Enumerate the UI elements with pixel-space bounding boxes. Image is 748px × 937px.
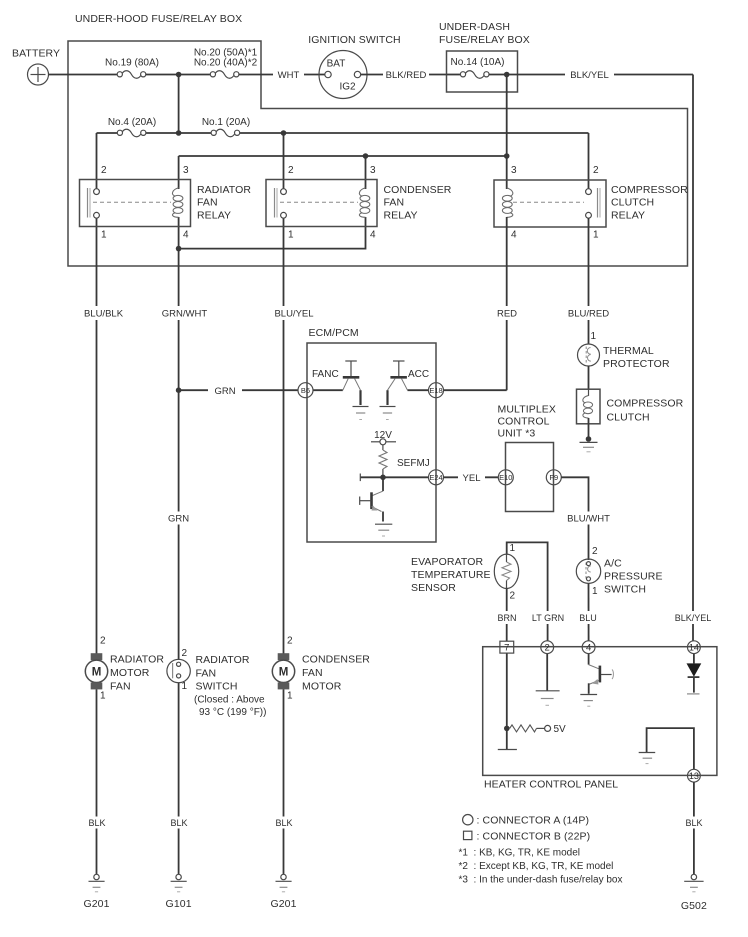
connector pin 13 bbox=[688, 769, 701, 782]
svg-text:F9: F9 bbox=[549, 473, 558, 482]
ignition switch bbox=[308, 34, 401, 99]
svg-text:7: 7 bbox=[504, 643, 509, 654]
ECM/PCM bbox=[307, 327, 436, 542]
svg-text:No.1 (20A): No.1 (20A) bbox=[202, 117, 250, 128]
ground compressor clutch bbox=[580, 436, 598, 452]
svg-text:RADIATOR: RADIATOR bbox=[110, 654, 164, 666]
svg-text:FUSE/RELAY BOX: FUSE/RELAY BOX bbox=[439, 34, 530, 46]
svg-text:IG2: IG2 bbox=[339, 82, 356, 93]
relay R2 condenser fan relay bbox=[266, 165, 452, 241]
wire F9 to BLU/WHT drop bbox=[561, 477, 588, 560]
wire under-dash drop to line B bbox=[506, 75, 508, 190]
wire M2 to G201 bbox=[283, 689, 285, 874]
GRN mid label bbox=[165, 512, 192, 525]
svg-text:BLK/YEL: BLK/YEL bbox=[570, 70, 609, 81]
transistor Q4 heater panel bbox=[580, 654, 613, 707]
svg-text:FAN: FAN bbox=[302, 667, 323, 679]
svg-text:HEATER CONTROL PANEL: HEATER CONTROL PANEL bbox=[484, 779, 618, 791]
svg-text:3: 3 bbox=[370, 165, 376, 176]
wire to E24 bbox=[360, 476, 428, 478]
node GRN junction bbox=[176, 387, 182, 393]
wire GRN radiator pin4 to B6 bbox=[179, 389, 298, 391]
transistor Q2 ACC input bbox=[380, 361, 430, 420]
connector E18 bbox=[429, 383, 444, 398]
svg-text:2: 2 bbox=[287, 636, 293, 647]
svg-text:93 °C (199 °F)): 93 °C (199 °F)) bbox=[199, 707, 266, 718]
svg-text:1: 1 bbox=[101, 230, 107, 241]
svg-text:FAN: FAN bbox=[196, 667, 217, 679]
diode D1 at pin 14 bbox=[687, 654, 702, 694]
svg-text:BAT: BAT bbox=[327, 59, 346, 70]
svg-text:No.4 (20A): No.4 (20A) bbox=[108, 117, 156, 128]
svg-text:FANC: FANC bbox=[312, 369, 339, 380]
wire S1 to G101 bbox=[178, 683, 180, 875]
svg-text:BLK: BLK bbox=[275, 818, 292, 828]
wire fuse19 to fuse20 bbox=[146, 74, 211, 76]
transistor Q3 fan control bbox=[360, 477, 393, 536]
svg-text:No.19 (80A): No.19 (80A) bbox=[105, 58, 159, 69]
heater control panel bbox=[483, 647, 717, 791]
node SEFMJ junction bbox=[380, 475, 386, 481]
svg-text:GRN: GRN bbox=[168, 514, 189, 525]
svg-text:2: 2 bbox=[545, 643, 550, 654]
wire condenser relay pin1 down (BLU/YEL) bbox=[283, 218, 285, 654]
motor M1 radiator fan motor bbox=[85, 636, 164, 702]
svg-text:(Closed : Above: (Closed : Above bbox=[194, 695, 265, 706]
svg-text:CONTROL: CONTROL bbox=[498, 416, 550, 428]
svg-text:SEFMJ: SEFMJ bbox=[397, 458, 430, 469]
svg-text:3: 3 bbox=[511, 165, 517, 176]
svg-text:PROTECTOR: PROTECTOR bbox=[603, 358, 670, 370]
wire thermal protector to clutch bbox=[588, 366, 590, 389]
node pin4 join bbox=[176, 246, 182, 252]
transistor Q1 FANC output bbox=[312, 361, 369, 420]
wire WHT to ignition switch bbox=[239, 74, 325, 76]
wire battery to fuse No.19 bbox=[49, 74, 118, 76]
wire M1 to G201 bbox=[96, 689, 98, 874]
svg-text:UNDER-HOOD FUSE/RELAY BOX: UNDER-HOOD FUSE/RELAY BOX bbox=[75, 13, 242, 25]
svg-text:2: 2 bbox=[101, 165, 107, 176]
fuse No.19 (80A) bbox=[105, 58, 159, 79]
node battery feed junction bbox=[176, 72, 182, 78]
node under-dash output junction bbox=[504, 72, 510, 78]
svg-text:1: 1 bbox=[591, 331, 597, 342]
wire YEL E24 to E10 bbox=[444, 476, 499, 478]
svg-text:: CONNECTOR B (22P): : CONNECTOR B (22P) bbox=[477, 831, 591, 843]
wire E18 to RED drop bbox=[444, 389, 507, 391]
wire condenser relay pin2 drop bbox=[283, 133, 285, 189]
svg-text:G502: G502 bbox=[681, 900, 707, 912]
svg-text:RADIATOR: RADIATOR bbox=[197, 184, 251, 196]
legend connector A bbox=[463, 815, 589, 827]
svg-text:2: 2 bbox=[593, 165, 599, 176]
wire pin13 down to G502 bbox=[693, 782, 695, 874]
wire compressor relay pin1 down (BLU/RED) bbox=[588, 218, 590, 344]
motor M2 condenser fan motor bbox=[272, 636, 370, 702]
ground G201 left bbox=[83, 874, 109, 910]
svg-text:LT GRN: LT GRN bbox=[532, 613, 564, 623]
svg-text:YEL: YEL bbox=[463, 473, 481, 484]
svg-text:BLU/WHT: BLU/WHT bbox=[567, 514, 610, 525]
wire compressor relay pin4 down (RED) bbox=[506, 217, 508, 390]
svg-text:4: 4 bbox=[183, 230, 189, 241]
legend notes bbox=[459, 848, 623, 886]
ground G502 bbox=[681, 874, 707, 912]
under-dash fuse/relay box bbox=[439, 21, 530, 92]
wire fuse row line A bbox=[97, 133, 589, 189]
resistor 5V pull-up bbox=[504, 724, 566, 735]
svg-text:BLK/RED: BLK/RED bbox=[386, 70, 427, 81]
fuse No.14 (10A) bbox=[447, 57, 518, 78]
connector pin 7 (square, connector B) bbox=[500, 641, 514, 654]
svg-text:5V: 5V bbox=[554, 724, 567, 735]
svg-text:PRESSURE: PRESSURE bbox=[604, 571, 663, 583]
svg-text:E24: E24 bbox=[429, 473, 442, 482]
svg-text:*3 : In the under-dash fuse/r: *3 : In the under-dash fuse/relay box bbox=[459, 875, 623, 886]
svg-text:1: 1 bbox=[593, 230, 599, 241]
svg-text:EVAPORATOR: EVAPORATOR bbox=[411, 556, 483, 568]
svg-text:E18: E18 bbox=[429, 386, 442, 395]
svg-text:A/C: A/C bbox=[604, 558, 622, 570]
svg-text:*2 : Except KB, KG, TR, KE mo: *2 : Except KB, KG, TR, KE model bbox=[459, 861, 614, 872]
svg-text:RED: RED bbox=[497, 309, 517, 320]
svg-text:No.14 (10A): No.14 (10A) bbox=[451, 57, 505, 68]
connector F9 bbox=[546, 470, 561, 485]
node line B junction condenser pin3 bbox=[363, 153, 369, 159]
svg-text:1: 1 bbox=[510, 543, 516, 554]
svg-text:2: 2 bbox=[592, 546, 598, 557]
fuse No.20 (50A/40A) bbox=[194, 48, 258, 79]
svg-text:THERMAL: THERMAL bbox=[603, 345, 654, 357]
svg-text:TEMPERATURE: TEMPERATURE bbox=[411, 569, 491, 581]
svg-text:COMPRESSOR: COMPRESSOR bbox=[607, 398, 684, 410]
svg-text:G201: G201 bbox=[83, 898, 109, 910]
svg-text:BLU/YEL: BLU/YEL bbox=[274, 309, 313, 320]
svg-text:2: 2 bbox=[100, 636, 106, 647]
svg-text:2: 2 bbox=[288, 165, 294, 176]
wire junction down to fuse row bbox=[178, 75, 180, 134]
svg-text:WHT: WHT bbox=[278, 70, 300, 81]
svg-text:ACC: ACC bbox=[408, 369, 429, 380]
svg-text:GRN: GRN bbox=[214, 386, 235, 397]
svg-text:E10: E10 bbox=[499, 473, 512, 482]
svg-text:SWITCH: SWITCH bbox=[604, 584, 646, 596]
wire line B relay coil feed bbox=[179, 155, 507, 157]
svg-text:2: 2 bbox=[182, 648, 188, 659]
svg-text:B6: B6 bbox=[301, 386, 310, 395]
svg-text:BLU/RED: BLU/RED bbox=[568, 309, 609, 320]
svg-text:1: 1 bbox=[287, 691, 293, 702]
svg-text:CONDENSER: CONDENSER bbox=[302, 654, 370, 666]
thermal protector bbox=[578, 331, 670, 370]
svg-text:GRN/WHT: GRN/WHT bbox=[162, 309, 208, 320]
svg-text:ECM/PCM: ECM/PCM bbox=[309, 327, 359, 339]
svg-text:M: M bbox=[279, 667, 289, 679]
svg-text:1: 1 bbox=[100, 691, 106, 702]
svg-text:RELAY: RELAY bbox=[611, 209, 645, 221]
svg-text:RELAY: RELAY bbox=[197, 209, 231, 221]
connector pin 4 bbox=[582, 641, 595, 654]
ground G101 bbox=[166, 874, 192, 910]
svg-text:G101: G101 bbox=[166, 898, 192, 910]
svg-text:: CONNECTOR A (14P): : CONNECTOR A (14P) bbox=[477, 815, 590, 827]
pin 2 wire to ground bbox=[536, 654, 560, 706]
connector pin 2 bbox=[541, 641, 554, 654]
node line B junction compressor pin3 bbox=[504, 153, 510, 159]
legend connector B bbox=[464, 831, 591, 843]
wire BLK/YEL to right edge bbox=[518, 74, 694, 76]
svg-text:CLUTCH: CLUTCH bbox=[607, 412, 650, 424]
wire colour labels row bbox=[74, 306, 617, 320]
connector pin 14 bbox=[688, 641, 701, 654]
compressor clutch coil bbox=[577, 389, 684, 439]
svg-text:4: 4 bbox=[370, 230, 376, 241]
wire condenser relay pin4 to join radiator pin4 bbox=[179, 217, 366, 249]
svg-text:G201: G201 bbox=[270, 898, 296, 910]
pin 7 wire and sensor input bbox=[498, 653, 517, 749]
svg-text:BATTERY: BATTERY bbox=[12, 48, 60, 60]
svg-text:3: 3 bbox=[183, 165, 189, 176]
svg-text:2: 2 bbox=[510, 591, 516, 602]
svg-text:BRN: BRN bbox=[497, 613, 516, 623]
svg-text:MOTOR: MOTOR bbox=[110, 667, 150, 679]
svg-text:SWITCH: SWITCH bbox=[196, 681, 238, 693]
12V supply node bbox=[371, 430, 396, 450]
evaporator temperature sensor bbox=[411, 542, 548, 641]
svg-text:1: 1 bbox=[288, 230, 294, 241]
bottom small wire labels bbox=[494, 611, 713, 624]
svg-text:BLK: BLK bbox=[170, 818, 187, 828]
svg-text:4: 4 bbox=[586, 643, 591, 654]
resistor SEFMJ pull-up bbox=[379, 450, 430, 477]
svg-text:CONDENSER: CONDENSER bbox=[384, 184, 452, 196]
svg-text:14: 14 bbox=[689, 643, 699, 653]
fuse No.4 (20A) bbox=[108, 117, 156, 137]
svg-text:SENSOR: SENSOR bbox=[411, 582, 456, 594]
svg-text:UNIT *3: UNIT *3 bbox=[498, 428, 536, 440]
wire BLK/RED ignition to under-dash box bbox=[361, 74, 447, 76]
svg-text:BLK/YEL: BLK/YEL bbox=[675, 613, 712, 623]
svg-text:1: 1 bbox=[182, 681, 188, 692]
svg-text:RADIATOR: RADIATOR bbox=[196, 654, 250, 666]
svg-text:1: 1 bbox=[592, 586, 598, 597]
svg-text:UNDER-DASH: UNDER-DASH bbox=[439, 21, 510, 33]
a/c pressure switch bbox=[576, 546, 662, 641]
ground G201 right bbox=[270, 874, 296, 910]
svg-text:13: 13 bbox=[689, 771, 699, 781]
svg-text:COMPRESSOR: COMPRESSOR bbox=[611, 184, 688, 196]
fuse No.1 (20A) bbox=[202, 117, 250, 137]
svg-text:BLK: BLK bbox=[685, 818, 702, 828]
node fuse row junction at battery drop bbox=[176, 130, 182, 136]
svg-text:MULTIPLEX: MULTIPLEX bbox=[498, 404, 556, 416]
svg-text:No.20 (40A)*2: No.20 (40A)*2 bbox=[194, 58, 258, 69]
wire radiator relay pin1 down (BLU/BLK) bbox=[96, 218, 98, 654]
svg-text:M: M bbox=[92, 667, 102, 679]
svg-text:*1 : KB, KG, TR, KE model: *1 : KB, KG, TR, KE model bbox=[459, 848, 581, 859]
wire radiator relay pin4 down (GRN/WHT then GRN) bbox=[178, 217, 180, 660]
svg-text:BLU: BLU bbox=[579, 613, 597, 623]
svg-text:IGNITION SWITCH: IGNITION SWITCH bbox=[308, 34, 401, 46]
connector E24 bbox=[429, 470, 444, 485]
svg-text:FAN: FAN bbox=[110, 680, 131, 692]
under-hood fuse/relay box bbox=[68, 13, 688, 266]
node fuse row junction condenser relay feed bbox=[281, 130, 287, 136]
svg-text:FAN: FAN bbox=[384, 197, 405, 209]
svg-text:FAN: FAN bbox=[197, 197, 218, 209]
battery bbox=[12, 48, 60, 86]
svg-text:MOTOR: MOTOR bbox=[302, 680, 342, 692]
wire BLK/YEL down right side bbox=[692, 75, 694, 642]
connector E10 bbox=[498, 470, 513, 485]
relay R3 compressor clutch relay bbox=[494, 165, 688, 241]
connector B6 bbox=[298, 383, 313, 398]
svg-text:BLK: BLK bbox=[88, 818, 105, 828]
svg-text:RELAY: RELAY bbox=[384, 209, 418, 221]
multiplex control unit bbox=[498, 404, 556, 512]
switch S1 radiator fan switch bbox=[167, 648, 267, 718]
pin 13 wire to ground bbox=[639, 728, 694, 769]
relay R1 radiator fan relay bbox=[80, 165, 252, 241]
svg-text:4: 4 bbox=[511, 230, 517, 241]
svg-text:CLUTCH: CLUTCH bbox=[611, 197, 654, 209]
svg-text:BLU/BLK: BLU/BLK bbox=[84, 309, 124, 320]
